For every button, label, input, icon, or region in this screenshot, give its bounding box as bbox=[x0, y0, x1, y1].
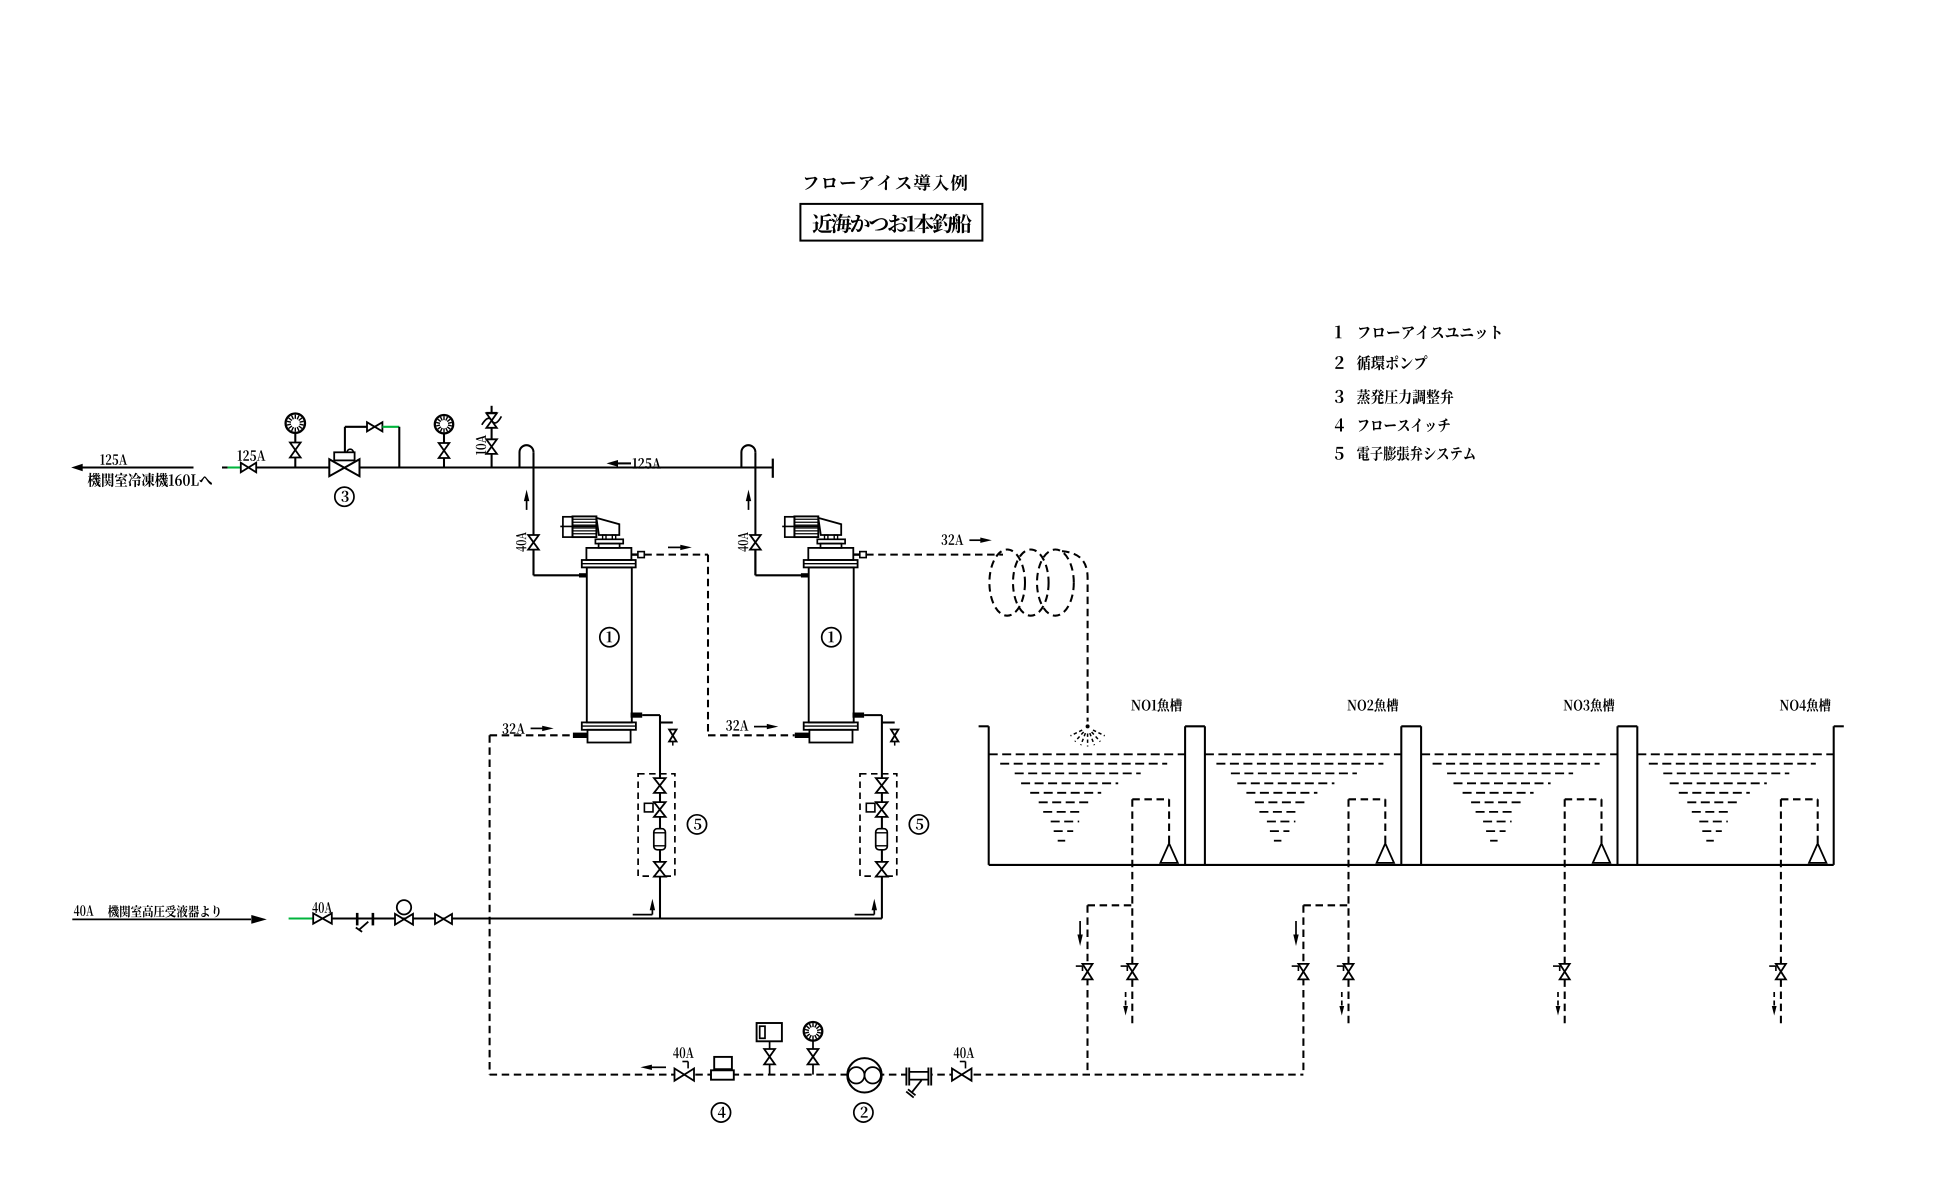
wire bottom manifold dashed bbox=[490, 1074, 1304, 1076]
tank NO2 foot strainer bbox=[1377, 843, 1394, 863]
tank NO3 suction pipe dashed bbox=[1565, 799, 1602, 963]
pump 2 (circulation pump) bbox=[847, 1058, 881, 1092]
valve top (5) unit1 bbox=[654, 778, 666, 793]
port bottom outlet unit2 bbox=[853, 713, 865, 718]
port suction unit2 bbox=[801, 573, 809, 577]
loop seal unit1 bbox=[520, 445, 534, 467]
tank NO1 branch riser dashed bbox=[1086, 905, 1088, 1074]
label circled 5 unit2 bbox=[909, 815, 928, 834]
label 32A unit1 feed bbox=[503, 723, 525, 734]
tank NO3 drain continuation bbox=[1556, 979, 1565, 1025]
loop seal unit2 bbox=[741, 445, 755, 467]
underline with arrow bbox=[72, 915, 266, 924]
gauge PG1 stem bbox=[294, 433, 296, 468]
label 機関室高圧受液器より bbox=[108, 905, 220, 917]
coil loop 3 bbox=[1037, 550, 1074, 616]
flow arrow 32A unit1 bbox=[531, 726, 554, 731]
tank NO4 drain continuation bbox=[1772, 979, 1781, 1025]
flow arrow 32A to tanks bbox=[969, 538, 991, 543]
wire unit2 outlet dashed bbox=[866, 554, 1003, 556]
wire unit1 outlet dashed bbox=[644, 555, 708, 736]
vessel body unit1 bbox=[587, 567, 632, 722]
label 機関室冷凍機160Lへ bbox=[88, 473, 212, 487]
wire 40A liquid green bbox=[289, 917, 313, 919]
tank NO2 water funnel bbox=[1216, 764, 1383, 841]
vessel top cap unit2 bbox=[808, 548, 853, 560]
vessel top flange unit2 bbox=[804, 560, 858, 567]
label 40A rotated unit2 bbox=[738, 532, 748, 552]
tank NO1 water funnel bbox=[1000, 764, 1167, 841]
valve pressure switch root bbox=[764, 1049, 775, 1064]
valve 3 body (pressure regulating valve) bbox=[329, 459, 359, 476]
label 125A mid-header with arrow bbox=[607, 458, 661, 469]
label 40A at valve bbox=[312, 902, 332, 913]
port top outlet unit2 bbox=[853, 552, 866, 558]
charge valve branch unit1 bbox=[660, 723, 677, 746]
label 40A from receiver bbox=[74, 905, 94, 916]
label 125A (at valve) bbox=[238, 450, 266, 461]
legend item 1 フローアイスユニット bbox=[1335, 326, 1500, 340]
tank NO4 suction pipe dashed bbox=[1781, 799, 1818, 963]
wire refrigerant downcomer unit2 bbox=[864, 715, 882, 918]
label circled 1 unit2 bbox=[822, 628, 841, 647]
valve bypass bbox=[367, 422, 382, 431]
tank NO3 label bbox=[1564, 698, 1615, 711]
tank NO2 drain valve bbox=[1337, 964, 1354, 980]
vessel bottom cap unit2 bbox=[809, 730, 852, 743]
motor unit1 bbox=[560, 516, 602, 537]
legend item 4 フロースイッチ bbox=[1335, 418, 1450, 432]
wire circulation riser dashed bbox=[489, 735, 491, 1074]
label 32A to tanks bbox=[941, 534, 963, 545]
drive legs unit1 bbox=[603, 535, 616, 539]
tank NO1 drain continuation bbox=[1123, 979, 1132, 1025]
wire 40A liquid line bbox=[313, 917, 882, 919]
tank NO2 branch riser dashed bbox=[1302, 905, 1304, 1074]
valve 40A suction unit2 bbox=[750, 535, 761, 550]
spray nozzle bbox=[1071, 724, 1105, 746]
coil loop 2 bbox=[1013, 550, 1049, 616]
valve 40A liquid bbox=[313, 913, 332, 923]
wire bypass drop bbox=[398, 427, 400, 468]
relief valve triangles bbox=[486, 413, 496, 428]
gauge PG2 stem bbox=[443, 434, 445, 468]
wire riser elbow unit1 bbox=[534, 550, 580, 576]
tank NO1 suction pipe dashed bbox=[1132, 799, 1169, 963]
vessel top cap unit1 bbox=[586, 548, 631, 560]
tank wall column 1-2 bbox=[1185, 726, 1205, 865]
wire suction riser unit1 bbox=[532, 452, 534, 575]
tank1 left wall bbox=[979, 726, 989, 865]
expansion valve body (5) unit2 bbox=[876, 829, 888, 850]
relief valve spring bbox=[482, 416, 502, 424]
wire coil outlet drop bbox=[1062, 551, 1088, 721]
wire 125A header bbox=[243, 466, 773, 468]
label circled 5 unit1 bbox=[687, 815, 706, 834]
tank wall column 3-4 bbox=[1618, 726, 1638, 865]
valve top (5) unit2 bbox=[876, 778, 888, 793]
label circled 3 bbox=[335, 487, 354, 506]
tank NO2 label bbox=[1347, 698, 1398, 711]
flow arrow up unit2 bbox=[746, 490, 751, 510]
valve 125A isolation bbox=[241, 463, 256, 473]
port bottom outlet unit1 bbox=[631, 713, 643, 718]
tank NO4 water surface bbox=[1637, 753, 1833, 755]
label 40A rotated unit1 bbox=[516, 532, 526, 552]
valve PG3 root bbox=[808, 1049, 819, 1064]
vessel body unit2 bbox=[809, 567, 854, 722]
flow arrow unit1 outlet bbox=[668, 545, 692, 550]
wire refrigerant downcomer unit1 bbox=[642, 715, 660, 918]
tank NO3 water surface bbox=[1421, 753, 1617, 755]
port bottom inlet unit1 bbox=[573, 733, 588, 738]
legend item 5 電子膨張弁システム bbox=[1335, 446, 1475, 461]
tank NO2 branch arrow bbox=[1293, 921, 1298, 946]
tank NO3 water funnel bbox=[1433, 764, 1600, 841]
flow switch 4 bbox=[711, 1057, 734, 1080]
title box bbox=[800, 204, 982, 241]
label 125A (to refrigerator) bbox=[100, 454, 127, 465]
charge valve branch unit2 bbox=[882, 723, 899, 746]
tank NO1 foot strainer bbox=[1160, 843, 1177, 863]
tank NO3 foot strainer bbox=[1593, 843, 1610, 863]
expansion valve body (5) unit1 bbox=[654, 829, 666, 850]
tank NO4 foot strainer bbox=[1809, 843, 1826, 863]
tank NO2 water surface bbox=[1205, 753, 1401, 755]
port suction unit1 bbox=[579, 573, 587, 577]
wire header segment green bbox=[222, 466, 243, 468]
drive collar unit2 bbox=[817, 539, 845, 543]
tank NO4 drain valve bbox=[1769, 964, 1786, 980]
tank NO4 water funnel bbox=[1649, 764, 1816, 841]
wire unit2 feed dashed bbox=[708, 734, 795, 736]
tank NO2 branch stub dashed bbox=[1303, 904, 1348, 906]
strainer bbox=[906, 1068, 931, 1098]
label 40A manifold left bbox=[673, 1047, 693, 1058]
tank NO2 drain continuation bbox=[1339, 979, 1348, 1025]
flow arrow up unit1 bbox=[524, 490, 529, 510]
gauge PG2 bbox=[435, 415, 453, 433]
solenoid valve (5) unit2 bbox=[866, 802, 887, 817]
vessel top flange unit1 bbox=[582, 560, 636, 567]
tank NO4 label bbox=[1780, 698, 1831, 711]
flow arrow into riser unit2 bbox=[855, 899, 877, 915]
label circled 1 unit1 bbox=[600, 628, 619, 647]
valve 40A manifold left bbox=[675, 1062, 695, 1081]
coil loop 1 bbox=[989, 550, 1025, 616]
label circled 2 bbox=[854, 1103, 873, 1122]
legend item 2 循環ポンプ bbox=[1335, 355, 1427, 370]
flow arrow into riser unit1 bbox=[633, 899, 655, 915]
sight glass bbox=[356, 913, 373, 932]
valve bottom (5) unit1 bbox=[654, 862, 666, 877]
flow arrow manifold left bbox=[640, 1065, 666, 1070]
gauge PG1 bbox=[286, 414, 305, 433]
tank4 right wall bbox=[1834, 726, 1844, 865]
valve 40A suction unit1 bbox=[528, 535, 539, 550]
tank NO1 branch valve bbox=[1076, 964, 1093, 980]
flow arrow 32A unit2 bbox=[754, 724, 778, 729]
pressure switch bbox=[757, 1023, 782, 1075]
tank NO1 drain valve bbox=[1121, 964, 1138, 980]
motor unit2 bbox=[782, 516, 824, 537]
label 32A unit2 feed bbox=[726, 720, 748, 731]
drive neck unit2 bbox=[821, 544, 842, 548]
vessel bottom cap unit1 bbox=[588, 730, 631, 743]
tank NO1 label bbox=[1131, 698, 1182, 711]
gauge PG3 bbox=[804, 1022, 823, 1041]
valve 40A manifold right bbox=[952, 1062, 972, 1081]
title 近海かつお1本釣船 bbox=[813, 214, 972, 234]
relief valve stem bbox=[491, 406, 493, 468]
valve PG1 root bbox=[290, 443, 301, 458]
vessel bottom flange unit2 bbox=[804, 722, 858, 729]
valve PG2 root bbox=[439, 443, 450, 458]
relief valve top bar bbox=[486, 412, 497, 414]
tank NO1 water surface bbox=[989, 753, 1185, 755]
wire suction riser unit2 bbox=[754, 452, 756, 575]
ball valve with round handle bbox=[395, 900, 413, 925]
vessel bottom flange unit1 bbox=[582, 722, 636, 729]
valve 3 actuator box bbox=[334, 452, 354, 460]
wire 125A outlet with left arrow bbox=[71, 464, 193, 471]
label 40A manifold right bbox=[954, 1047, 974, 1058]
motor bracket unit2 bbox=[818, 518, 841, 535]
tank NO2 branch valve bbox=[1292, 964, 1309, 980]
tank NO2 suction pipe dashed bbox=[1349, 799, 1386, 963]
valve bottom (5) unit2 bbox=[876, 862, 888, 877]
wire bypass green segment bbox=[382, 426, 399, 428]
expansion system box 5 unit1 bbox=[638, 774, 675, 876]
solenoid valve (5) unit1 bbox=[644, 802, 665, 817]
tank NO1 branch stub dashed bbox=[1088, 904, 1133, 906]
tank wall column 2-3 bbox=[1401, 726, 1421, 865]
expansion system box 5 unit2 bbox=[860, 774, 897, 876]
valve 40A second bbox=[435, 914, 452, 924]
drive collar unit1 bbox=[595, 539, 623, 543]
valve 10A root bbox=[486, 439, 497, 454]
tank NO1 branch arrow bbox=[1077, 921, 1082, 946]
drive legs unit2 bbox=[825, 535, 838, 539]
wire unit1 feed dashed bbox=[490, 734, 573, 736]
tank NO3 drain valve bbox=[1553, 964, 1570, 980]
wire bypass riser bbox=[345, 427, 367, 453]
label 10A (rotated) bbox=[476, 435, 486, 455]
port bottom inlet unit2 bbox=[795, 733, 810, 738]
tanks bottom bbox=[989, 864, 1834, 866]
gauge PG3 stem bbox=[812, 1041, 814, 1075]
title フローアイス導入例 bbox=[805, 174, 967, 191]
wire riser elbow unit2 bbox=[755, 550, 801, 576]
valve 3 actuator dome bbox=[347, 449, 353, 452]
label circled 4 bbox=[711, 1103, 730, 1122]
drive neck unit1 bbox=[599, 544, 620, 548]
header end bar bbox=[772, 459, 774, 478]
motor bracket unit1 bbox=[596, 518, 619, 535]
legend item 3 蒸発圧力調整弁 bbox=[1335, 389, 1453, 404]
port top outlet unit1 bbox=[631, 552, 644, 558]
